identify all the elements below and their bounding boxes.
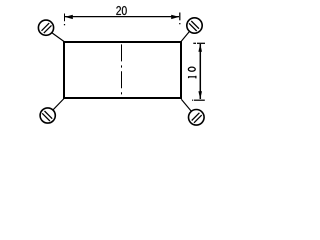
dimension text 10 (rotated): digit 1 flag bbox=[188, 77, 189, 78]
extension line bottom of dim 10 bbox=[194, 99, 205, 101]
dimension line 10 (right) bbox=[199, 44, 201, 99]
screw symbol top-right bbox=[187, 18, 202, 33]
extension line right of dim 20 bbox=[179, 13, 181, 21]
workpiece rectangle bbox=[64, 42, 181, 98]
leader bottom-right bbox=[181, 99, 191, 111]
dimension text 10 (rotated): digit 1 stem bbox=[188, 76, 196, 78]
screw symbol top-left bbox=[38, 20, 53, 35]
extension line top of dim 10 bbox=[197, 42, 205, 44]
leader bottom-left bbox=[53, 99, 64, 110]
screw symbol bottom-left bbox=[40, 108, 55, 123]
leader top-right bbox=[181, 32, 189, 42]
screw symbol bottom-right bbox=[189, 110, 205, 126]
dimension text 20 bbox=[116, 6, 126, 15]
dimension text 10 (rotated): digit 1 foot serif bbox=[195, 76, 197, 79]
arrow top of dim 10 bbox=[198, 44, 202, 52]
arrow bottom of dim 10 bbox=[198, 91, 202, 99]
centerline (vertical dash-dot) bbox=[121, 44, 123, 99]
extension line left of dim 20 bbox=[64, 14, 66, 22]
arrow right of dim 20 bbox=[171, 15, 179, 19]
leader top-left bbox=[52, 33, 64, 42]
dimension line 20 (top) bbox=[65, 16, 179, 18]
arrow left of dim 20 bbox=[65, 15, 73, 19]
dimension text 10 (rotated): digit 0 bbox=[188, 67, 195, 71]
